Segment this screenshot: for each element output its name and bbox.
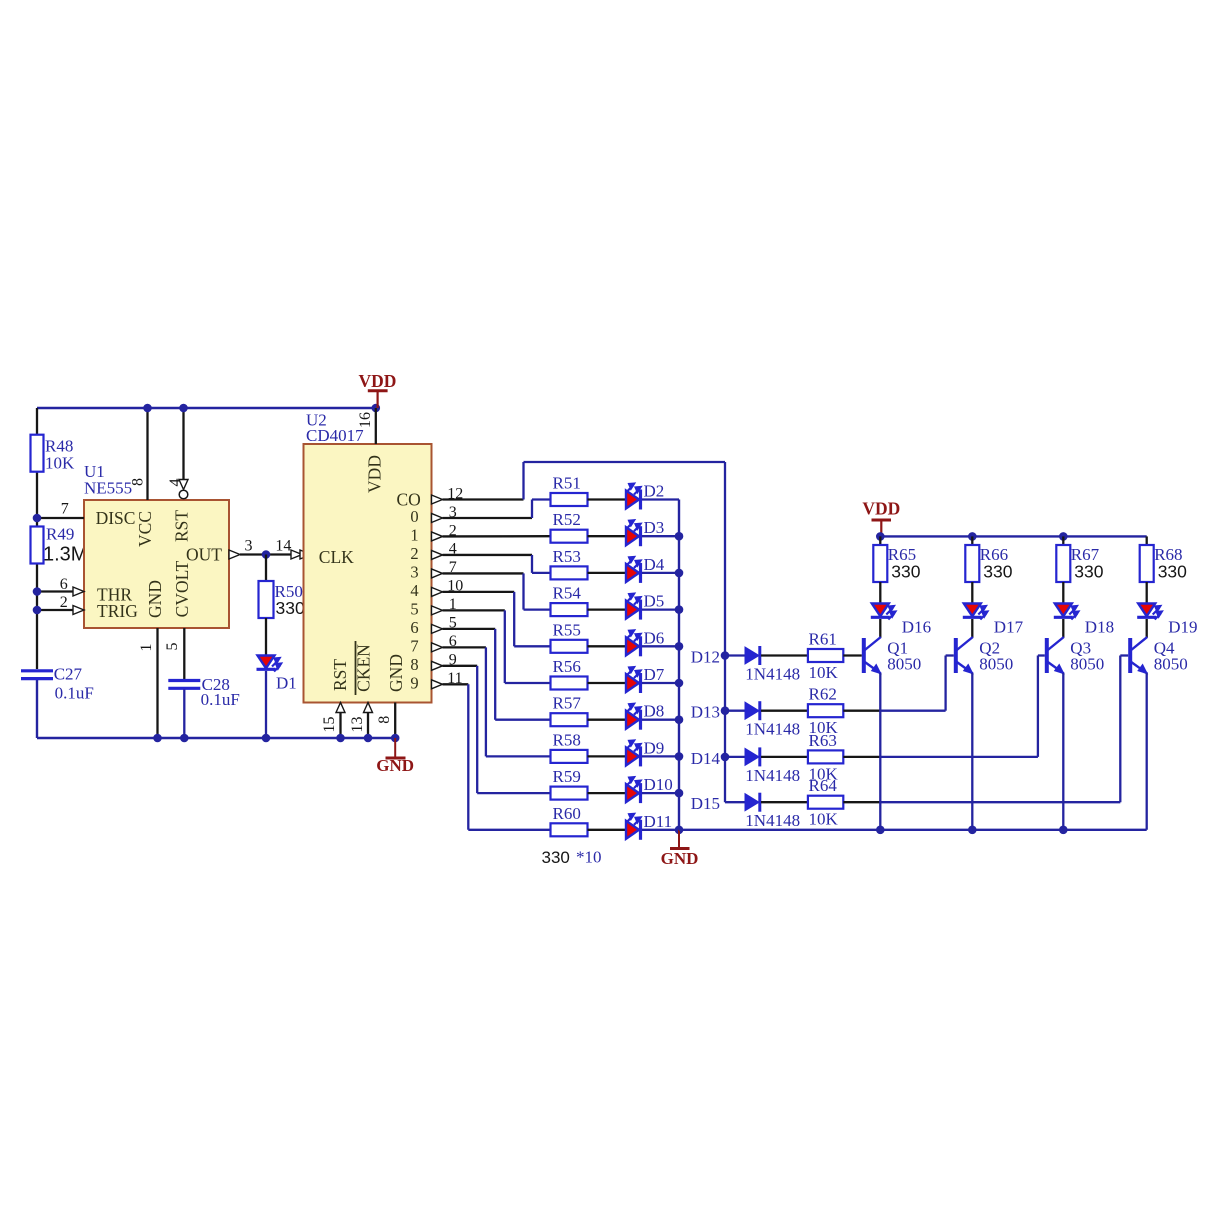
wire: bottom ground rail (left) bbox=[37, 737, 395, 739]
svg-text:7: 7 bbox=[410, 636, 418, 655]
pin 5 output arrow bbox=[432, 624, 443, 633]
wire: pin 4 to R53 bbox=[443, 554, 533, 556]
transistor Q2 8050 bbox=[954, 638, 958, 673]
svg-text:D2: D2 bbox=[644, 482, 665, 501]
ground symbol at LED bus bbox=[678, 830, 680, 847]
LED D6 bbox=[626, 637, 639, 655]
svg-text:D13: D13 bbox=[691, 703, 720, 722]
LED D10 bbox=[626, 784, 639, 802]
ground symbol under CD4017 bbox=[394, 738, 396, 757]
junction: bus/D5 bbox=[675, 605, 684, 614]
svg-text:TRIG: TRIG bbox=[97, 601, 138, 621]
svg-text:R57: R57 bbox=[553, 694, 582, 713]
junction: D14 tap bbox=[721, 753, 730, 762]
wire: node D15 bbox=[725, 801, 745, 803]
wire: D19 to Q4 collector bbox=[1146, 619, 1148, 638]
svg-text:RST: RST bbox=[172, 510, 192, 542]
wire: R66 top lead bbox=[971, 536, 973, 545]
junction: VDD rail / R65 bbox=[876, 532, 885, 541]
svg-text:RST: RST bbox=[330, 659, 350, 691]
svg-text:D4: D4 bbox=[644, 555, 665, 574]
wire: emitter ground rail bbox=[679, 829, 1147, 831]
svg-text:GND: GND bbox=[376, 756, 414, 775]
svg-text:6: 6 bbox=[410, 618, 418, 637]
junction: bus/D9 bbox=[675, 752, 684, 761]
LED D19 bbox=[1138, 604, 1155, 617]
svg-text:8050: 8050 bbox=[887, 655, 921, 674]
transistor Q1 8050 bbox=[862, 638, 866, 673]
wire: Q3 emitter to ground rail bbox=[1062, 673, 1064, 830]
wire: D9 cathode to bus bbox=[642, 755, 679, 757]
svg-text:GND: GND bbox=[145, 580, 165, 618]
resistor R54 bbox=[551, 603, 588, 616]
svg-text:9: 9 bbox=[410, 673, 418, 692]
svg-text:R63: R63 bbox=[809, 731, 837, 750]
LED D16 bbox=[872, 604, 889, 617]
junction: RST/top rail bbox=[179, 404, 188, 413]
svg-text:14: 14 bbox=[275, 538, 291, 555]
resistor R58 bbox=[551, 750, 588, 763]
wire: D7 cathode to bus bbox=[642, 682, 679, 684]
wire: pin 3 OUT to CLK bbox=[229, 550, 240, 559]
wire: pin 11 to R60 bbox=[443, 683, 469, 685]
wire: pin 6 THR bbox=[37, 590, 74, 592]
junction: bus/D3 bbox=[675, 532, 684, 541]
wire: pin 3 to R51 bbox=[443, 517, 533, 519]
wire: D10 cathode to bus bbox=[642, 792, 679, 794]
wire: R68 to D19 bbox=[1146, 582, 1148, 604]
wire: D11 cathode to bus bbox=[642, 829, 679, 831]
svg-text:3: 3 bbox=[410, 562, 418, 581]
svg-text:R49: R49 bbox=[46, 525, 74, 544]
svg-text:R55: R55 bbox=[553, 620, 581, 639]
svg-text:GND: GND bbox=[661, 849, 699, 868]
resistor R63 bbox=[808, 750, 843, 763]
wire: R64 to Q4 base bbox=[843, 801, 880, 803]
svg-text:6: 6 bbox=[60, 576, 68, 593]
svg-text:1N4148: 1N4148 bbox=[745, 766, 800, 785]
junction: GND pin to rail bbox=[153, 734, 162, 743]
diode D14 1N4148 bbox=[745, 748, 759, 765]
wire: R55 to D6 bbox=[588, 645, 627, 647]
wire: R50 top lead bbox=[265, 555, 267, 582]
op-amp/timer U1 NE555 body bbox=[84, 500, 229, 628]
svg-text:VCC: VCC bbox=[135, 511, 155, 547]
wire: R50 to D1 bbox=[265, 618, 267, 655]
wire: D3 cathode to bus bbox=[642, 535, 679, 537]
wire: pin 5 to R57 bbox=[443, 628, 496, 630]
junction: Q1 emitter / rail bbox=[876, 826, 885, 835]
svg-text:0: 0 bbox=[410, 507, 418, 526]
svg-text:DISC: DISC bbox=[96, 508, 136, 528]
svg-text:330: 330 bbox=[1158, 562, 1187, 582]
wire: D16 to Q1 collector bbox=[879, 619, 881, 638]
svg-text:D12: D12 bbox=[691, 648, 720, 667]
svg-text:D16: D16 bbox=[902, 618, 931, 637]
resistor R48 bbox=[31, 435, 44, 472]
svg-text:7: 7 bbox=[61, 501, 69, 518]
junction: VDD rail / R66 bbox=[968, 532, 977, 541]
svg-text:8: 8 bbox=[410, 655, 418, 674]
svg-text:R54: R54 bbox=[553, 584, 582, 603]
svg-text:1: 1 bbox=[410, 525, 418, 544]
pin 1 output arrow bbox=[432, 606, 443, 615]
pin 2 output arrow bbox=[432, 532, 443, 541]
svg-text:0.1uF: 0.1uF bbox=[201, 690, 240, 709]
wire: VDD top rail bbox=[37, 407, 376, 409]
resistor R66 bbox=[965, 545, 979, 582]
svg-text:D17: D17 bbox=[994, 618, 1024, 637]
junction: bus/D8 bbox=[675, 715, 684, 724]
wire: R66 to D17 bbox=[971, 582, 973, 604]
svg-text:330: 330 bbox=[891, 562, 920, 582]
wire: R68 top lead bbox=[1146, 536, 1148, 545]
svg-text:VDD: VDD bbox=[862, 499, 900, 519]
svg-text:D3: D3 bbox=[644, 518, 665, 537]
resistor R53 bbox=[551, 566, 588, 579]
wire: VDD rail right bbox=[880, 535, 1146, 537]
junction: THR node bbox=[33, 587, 42, 596]
svg-text:*10: *10 bbox=[576, 848, 602, 867]
wire: left vertical branch bbox=[36, 408, 38, 435]
junction: bus/D7 bbox=[675, 679, 684, 688]
wire: D6 cathode to bus bbox=[642, 645, 679, 647]
wire: R59 to D10 bbox=[588, 792, 627, 794]
junction: VCC/top rail bbox=[143, 404, 152, 413]
resistor R59 bbox=[551, 787, 588, 800]
svg-text:1N4148: 1N4148 bbox=[745, 811, 800, 830]
svg-text:R52: R52 bbox=[553, 510, 581, 529]
wire: pin 1 GND of NE555 bbox=[156, 628, 158, 738]
svg-text:GND: GND bbox=[386, 654, 406, 692]
junction: bus/ground bbox=[675, 826, 684, 835]
wire: R67 to D18 bbox=[1062, 582, 1064, 604]
LED D4 bbox=[626, 564, 639, 582]
svg-text:CD4017: CD4017 bbox=[306, 426, 364, 445]
svg-text:D8: D8 bbox=[644, 702, 665, 721]
svg-text:R61: R61 bbox=[809, 630, 837, 649]
wire: D13 to R62 bbox=[761, 710, 808, 712]
junction: pin15/rail bbox=[336, 734, 345, 743]
resistor R67 bbox=[1056, 545, 1070, 582]
svg-text:16: 16 bbox=[357, 412, 374, 428]
wire: R67 top lead bbox=[1062, 536, 1064, 545]
svg-text:CLK: CLK bbox=[319, 547, 354, 567]
wire: D17 to Q2 collector bbox=[971, 619, 973, 638]
svg-text:NE555: NE555 bbox=[84, 479, 132, 498]
svg-text:5: 5 bbox=[410, 599, 418, 618]
svg-text:8050: 8050 bbox=[979, 655, 1013, 674]
svg-text:2: 2 bbox=[60, 594, 68, 611]
junction: D1/rail bbox=[262, 734, 271, 743]
pin 3 output arrow bbox=[432, 513, 443, 522]
diode D15 1N4148 bbox=[745, 794, 759, 811]
svg-text:R62: R62 bbox=[809, 685, 837, 704]
wire: Q2 emitter to ground rail bbox=[971, 673, 973, 830]
pin 7 output arrow bbox=[432, 569, 443, 578]
wire: pin 10 to R55 bbox=[443, 591, 515, 593]
wire: pin 7 DISC bbox=[37, 517, 84, 519]
resistor R64 bbox=[808, 796, 843, 809]
wire: pin 8 VCC bbox=[146, 408, 148, 500]
wire: pin 5 CVOLT to C28 bbox=[183, 628, 185, 679]
capacitor C28 bbox=[168, 679, 200, 682]
svg-text:4: 4 bbox=[410, 581, 418, 600]
wire: pin 4 RST with inverter bubble bbox=[182, 408, 184, 480]
wire: Q1 emitter to ground rail bbox=[879, 673, 881, 830]
wire: D15 to R64 bbox=[761, 801, 808, 803]
wire: R65 top lead bbox=[879, 536, 881, 545]
svg-text:D11: D11 bbox=[644, 812, 673, 831]
wire: R57 to D8 bbox=[588, 719, 627, 721]
svg-text:330: 330 bbox=[276, 598, 305, 618]
resistor R61 bbox=[808, 649, 843, 662]
svg-text:D5: D5 bbox=[644, 592, 665, 611]
junction: Q2 emitter / rail bbox=[968, 826, 977, 835]
capacitor C27 bbox=[21, 669, 53, 672]
LED D3 bbox=[626, 527, 639, 545]
LED D5 bbox=[626, 601, 639, 619]
svg-text:R53: R53 bbox=[553, 547, 581, 566]
LED D11 bbox=[626, 821, 639, 839]
wire: CO pin12 to diode column top rail bbox=[443, 498, 524, 500]
svg-text:1: 1 bbox=[138, 644, 155, 652]
junction: pin13/rail bbox=[364, 734, 373, 743]
wire: diode anode column (D12-D15) bbox=[724, 462, 726, 802]
svg-text:R64: R64 bbox=[809, 776, 838, 795]
svg-text:1N4148: 1N4148 bbox=[745, 665, 800, 684]
wire: R56 to D7 bbox=[588, 682, 627, 684]
svg-text:1.3M: 1.3M bbox=[43, 544, 87, 566]
wire: R63 to Q3 base bbox=[843, 756, 880, 758]
svg-text:R56: R56 bbox=[553, 657, 581, 676]
wire: R52 to D3 bbox=[588, 535, 627, 537]
LED D8 bbox=[626, 711, 639, 729]
wire: D12 to R61 bbox=[761, 654, 808, 656]
LED D18 bbox=[1055, 604, 1072, 617]
wire: pin 6 to R58 bbox=[443, 646, 486, 648]
svg-text:2: 2 bbox=[410, 544, 418, 563]
resistor R49 bbox=[31, 527, 44, 564]
junction: TRIG node bbox=[33, 606, 42, 615]
LED D1 bbox=[258, 656, 275, 669]
wire: R54 to D5 bbox=[588, 608, 627, 610]
junction: bus/D10 bbox=[675, 789, 684, 798]
wire: pin 2 TRIG bbox=[37, 609, 74, 611]
resistor R60 bbox=[551, 823, 588, 836]
svg-text:R60: R60 bbox=[553, 804, 581, 823]
wire: R61 to Q1 base bbox=[843, 654, 862, 656]
LED D17 bbox=[964, 604, 981, 617]
svg-text:8: 8 bbox=[130, 478, 147, 486]
LED D9 bbox=[626, 747, 639, 765]
transistor Q3 8050 bbox=[1045, 638, 1049, 673]
transistor Q4 8050 bbox=[1128, 638, 1132, 673]
svg-text:5: 5 bbox=[164, 643, 181, 651]
svg-text:D9: D9 bbox=[644, 738, 665, 757]
pin 10 output arrow bbox=[432, 587, 443, 596]
svg-text:C27: C27 bbox=[54, 665, 83, 684]
resistor R62 bbox=[808, 704, 843, 717]
resistor R56 bbox=[551, 677, 588, 690]
pin 4 output arrow bbox=[432, 550, 443, 559]
wire: node D13 bbox=[725, 710, 745, 712]
wire: pin 7 to R54 bbox=[443, 572, 524, 574]
wire: D8 cathode to bus bbox=[642, 719, 679, 721]
diode D13 1N4148 bbox=[745, 702, 759, 719]
svg-text:8: 8 bbox=[376, 716, 393, 724]
svg-text:VDD: VDD bbox=[359, 371, 397, 391]
wire: D14 to R63 bbox=[761, 756, 808, 758]
wire: R58 to D9 bbox=[588, 755, 627, 757]
resistor R52 bbox=[551, 530, 588, 543]
svg-text:D14: D14 bbox=[691, 749, 721, 768]
svg-text:10K: 10K bbox=[809, 810, 839, 829]
resistor R57 bbox=[551, 713, 588, 726]
resistor R55 bbox=[551, 640, 588, 653]
junction: bus/D4 bbox=[675, 569, 684, 578]
junction: Q3 emitter / rail bbox=[1059, 826, 1068, 835]
wire: D5 cathode to bus bbox=[642, 608, 679, 610]
wire: pin 13 CKEN bbox=[364, 703, 373, 713]
wire: pin 2 to R52 bbox=[443, 535, 551, 538]
wire: node D12 bbox=[725, 654, 745, 656]
junction: C28/rail bbox=[180, 734, 189, 743]
junction: DISC node bbox=[33, 514, 42, 523]
svg-text:15: 15 bbox=[321, 717, 338, 733]
svg-text:D19: D19 bbox=[1168, 618, 1197, 637]
wire: R53 to D4 bbox=[588, 572, 627, 574]
wire: pin 9 to R59 bbox=[443, 665, 478, 667]
svg-text:8050: 8050 bbox=[1070, 655, 1104, 674]
junction: D12 tap bbox=[721, 651, 730, 660]
resistor R50 bbox=[259, 581, 274, 618]
svg-text:10K: 10K bbox=[809, 663, 839, 682]
wire: pin 16 bbox=[375, 408, 377, 444]
svg-text:330: 330 bbox=[1074, 562, 1103, 582]
pin 12 output arrow bbox=[432, 495, 443, 504]
svg-text:3: 3 bbox=[245, 538, 253, 555]
wire: D18 to Q3 collector bbox=[1062, 619, 1064, 638]
wire: pin 15 RST bbox=[336, 703, 345, 713]
svg-text:4: 4 bbox=[167, 479, 184, 487]
svg-text:13: 13 bbox=[349, 717, 366, 733]
svg-text:R59: R59 bbox=[553, 767, 581, 786]
wire: D4 cathode to bus bbox=[642, 572, 679, 574]
wire: LED cathode bus bbox=[678, 500, 680, 830]
wire: R60 to D11 bbox=[588, 829, 627, 831]
IC U2 CD4017 body bbox=[304, 444, 432, 703]
junction: bus/D6 bbox=[675, 642, 684, 651]
svg-text:10K: 10K bbox=[45, 454, 75, 473]
svg-text:0.1uF: 0.1uF bbox=[55, 684, 94, 703]
junction: pin8/ground bbox=[391, 734, 400, 743]
svg-text:1N4148: 1N4148 bbox=[745, 720, 800, 739]
svg-text:R51: R51 bbox=[553, 474, 581, 493]
svg-text:330: 330 bbox=[983, 562, 1012, 582]
svg-text:R58: R58 bbox=[553, 730, 581, 749]
svg-text:D7: D7 bbox=[644, 665, 665, 684]
LED D2 bbox=[626, 491, 639, 509]
wire: C28 to ground rail bbox=[183, 690, 185, 739]
wire: Q4 emitter to ground rail bbox=[1146, 673, 1148, 830]
svg-text:D1: D1 bbox=[276, 674, 297, 693]
LED D7 bbox=[626, 674, 639, 692]
wire: node D14 bbox=[725, 756, 745, 758]
svg-text:D6: D6 bbox=[644, 628, 665, 647]
wire: R51 to D2 bbox=[588, 498, 627, 500]
junction: VDD rail / R67 bbox=[1059, 532, 1068, 541]
junction: OUT node to R50 bbox=[262, 550, 271, 559]
junction: D13 tap bbox=[721, 706, 730, 715]
svg-text:CVOLT: CVOLT bbox=[172, 560, 192, 617]
diode D12 1N4148 bbox=[745, 647, 759, 664]
pin 9 output arrow bbox=[432, 661, 443, 670]
wire: D2 cathode to bus bbox=[642, 498, 679, 500]
junction: VDD rail to CD4017 pin16 bbox=[372, 404, 381, 413]
svg-text:D18: D18 bbox=[1085, 618, 1114, 637]
wire: R62 to Q2 base bbox=[843, 710, 880, 712]
svg-text:8050: 8050 bbox=[1154, 655, 1188, 674]
svg-text:D10: D10 bbox=[644, 775, 673, 794]
wire: D1 to ground rail bbox=[265, 671, 267, 738]
resistor R68 bbox=[1140, 545, 1154, 582]
pin 11 output arrow bbox=[432, 680, 443, 689]
resistor R65 bbox=[873, 545, 887, 582]
svg-text:VDD: VDD bbox=[365, 455, 385, 493]
wire: R65 to D16 bbox=[879, 582, 881, 604]
wire: pin 8 GND bbox=[394, 703, 396, 739]
svg-text:330: 330 bbox=[542, 848, 570, 867]
pin 6 output arrow bbox=[432, 643, 443, 652]
wire: pin 1 to R56 bbox=[443, 609, 505, 611]
svg-text:D15: D15 bbox=[691, 794, 720, 813]
resistor R51 bbox=[551, 493, 588, 506]
